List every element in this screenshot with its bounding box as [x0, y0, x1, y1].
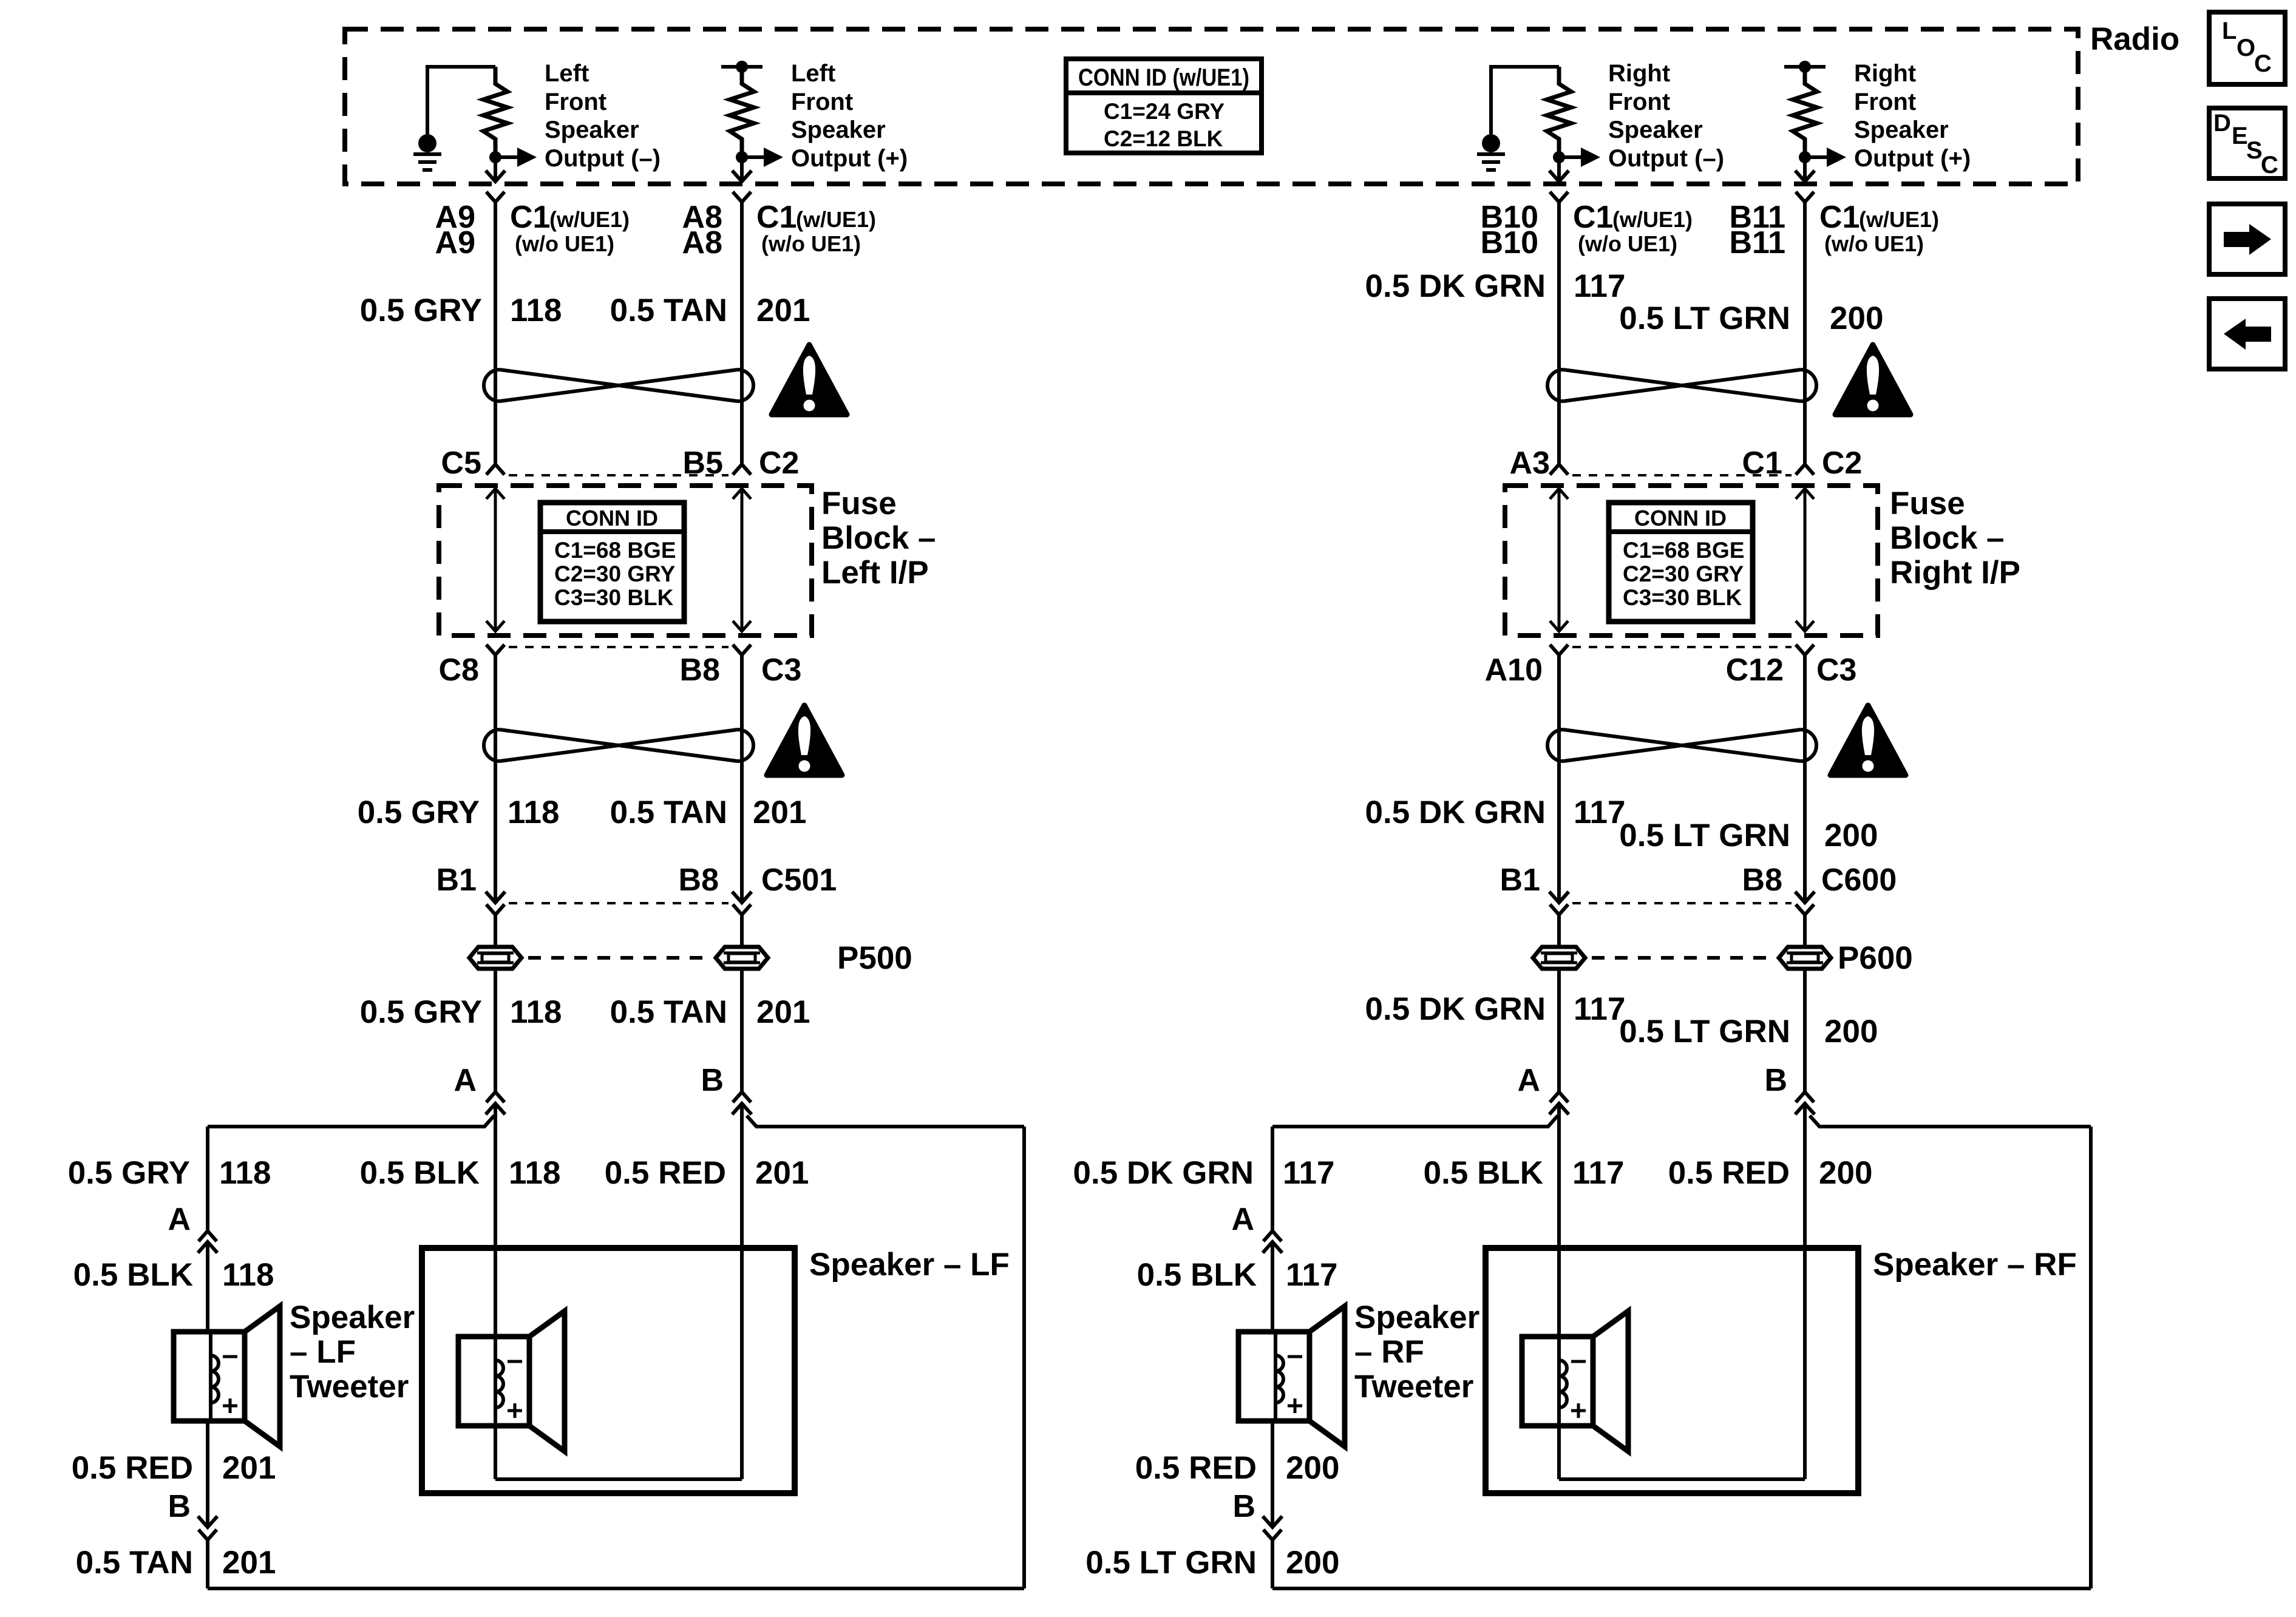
output arrow node right front (+) — [1799, 151, 1811, 163]
speaker connector male arrow pin B circuit 201 — [732, 1103, 752, 1114]
connector C501 female fork circuit 201 — [733, 904, 751, 915]
svg-text:C3: C3 — [761, 653, 801, 688]
speaker connector fork pin A circuit 117 — [1550, 1092, 1568, 1102]
P600 dashed interface line — [1592, 956, 1775, 960]
svg-text:C3: C3 — [1816, 653, 1856, 688]
svg-text:0.5 BLK: 0.5 BLK — [1424, 1155, 1543, 1191]
twisted pair symbol circuits 118/201 upper — [484, 370, 500, 401]
speaker RF tweeter horn — [1309, 1306, 1345, 1446]
connector fork into right fuse block pin A3 — [1550, 464, 1568, 475]
speaker connector male arrow pin B circuit 200 — [1795, 1103, 1815, 1114]
wire 200 fuse block to connector C600 — [1803, 655, 1807, 903]
svg-text:0.5 TAN: 0.5 TAN — [610, 293, 727, 328]
speaker connector fork pin B circuit 201 — [733, 1092, 751, 1102]
pass-through connector P500 circuit 201 — [716, 947, 768, 969]
speaker RF tweeter plus terminal — [1288, 1405, 1302, 1408]
svg-text:0.5 RED: 0.5 RED — [72, 1450, 193, 1486]
svg-text:A10: A10 — [1485, 653, 1543, 688]
speaker RF woofer internal wire — [1557, 1337, 1561, 1426]
wire tweeter to loop bottom left — [206, 1540, 209, 1588]
speaker LF woofer frame — [458, 1337, 529, 1426]
sidebar box forward arrow — [2209, 204, 2285, 274]
svg-text:B8: B8 — [680, 653, 720, 688]
wire C501 to P500 circuit 118 — [494, 915, 497, 947]
svg-text:(w/o UE1): (w/o UE1) — [1578, 231, 1677, 256]
speaker RF woofer coil — [1559, 1360, 1567, 1408]
svg-text:C1: C1 — [510, 200, 550, 235]
fuse block left I/P dashed outline — [439, 486, 812, 636]
connector fork below left fuse block pin B8/C3 — [733, 645, 751, 655]
wire outer loop bottom right half — [1272, 1587, 2091, 1590]
svg-text:201: 201 — [756, 994, 810, 1030]
svg-text:C1=68 BGE: C1=68 BGE — [1623, 538, 1745, 563]
svg-text:118: 118 — [510, 293, 562, 328]
svg-text:P600: P600 — [1838, 940, 1913, 976]
svg-text:(w/UE1): (w/UE1) — [796, 207, 876, 232]
speaker LF tweeter minus terminal — [223, 1355, 237, 1358]
svg-text:B11: B11 — [1729, 225, 1785, 260]
resistor R1 Left Front Speaker Output (-) driver — [483, 67, 508, 152]
svg-text:200: 200 — [1824, 1014, 1878, 1049]
svg-text:Output (+): Output (+) — [791, 145, 908, 172]
svg-text:0.5 RED: 0.5 RED — [605, 1155, 726, 1191]
svg-text:Block –: Block – — [1890, 520, 2005, 556]
wire 118 fuse block to connector C501 — [494, 655, 497, 903]
connector fork below right fuse block pin A10 — [1550, 645, 1568, 655]
svg-text:A9: A9 — [435, 225, 475, 260]
speaker LF woofer internal wire — [494, 1337, 497, 1426]
fuse block left internal circuit 118 double arrow — [494, 489, 497, 631]
speaker LF tweeter internal wire — [209, 1332, 212, 1421]
connector interface dashed line right fuse bottom — [1572, 646, 1792, 648]
svg-text:118: 118 — [509, 1155, 561, 1191]
svg-text:0.5 TAN: 0.5 TAN — [610, 994, 727, 1030]
svg-text:B10: B10 — [1481, 225, 1538, 260]
svg-text:Speaker: Speaker — [290, 1300, 415, 1335]
pass-through connector P500 circuit 118 — [469, 947, 521, 969]
wire C501 to P500 circuit 201 — [740, 915, 744, 947]
P500 dashed interface line — [528, 956, 712, 960]
speaker connector male arrow pin A circuit 118 — [486, 1103, 505, 1114]
svg-text:200: 200 — [1830, 300, 1883, 336]
wire P600 to speaker pin A circuit 117 — [1557, 969, 1561, 1092]
svg-text:(w/UE1): (w/UE1) — [1859, 207, 1939, 232]
svg-text:201: 201 — [222, 1545, 276, 1581]
svg-text:C1: C1 — [1819, 200, 1860, 235]
svg-text:Right: Right — [1608, 60, 1670, 87]
warning note triangle lower right — [1830, 705, 1906, 775]
svg-text:200: 200 — [1824, 818, 1878, 853]
svg-text:C2: C2 — [759, 446, 799, 481]
svg-text:200: 200 — [1286, 1545, 1339, 1581]
svg-text:118: 118 — [222, 1257, 274, 1293]
svg-text:C3=30 BLK: C3=30 BLK — [554, 585, 674, 610]
wire into right tweeter — [1271, 1242, 1274, 1332]
connector C600 female fork circuit 117 — [1550, 904, 1568, 915]
sidebar box DESC — [2209, 108, 2285, 178]
svg-text:Radio: Radio — [2090, 21, 2179, 57]
warning note triangle lower left — [767, 705, 842, 775]
twisted pair symbol circuits 117/200 lower — [1547, 730, 1563, 761]
svg-text:Front: Front — [791, 89, 853, 115]
ground G1 (left front speaker output minus reference) — [418, 134, 436, 152]
speaker RF woofer plus terminal — [1571, 1409, 1586, 1412]
svg-text:C: C — [2261, 152, 2278, 178]
wire tweeter branch vertical upper left — [206, 1127, 209, 1231]
svg-text:0.5 BLK: 0.5 BLK — [360, 1155, 480, 1191]
wire bar feeding resistor R2 — [721, 65, 763, 69]
fuse block right internal circuit 200 double arrow — [1804, 489, 1807, 631]
svg-text:C1=24 GRY: C1=24 GRY — [1104, 99, 1224, 124]
svg-text:B1: B1 — [436, 863, 477, 898]
svg-text:B: B — [701, 1063, 724, 1098]
svg-text:0.5 GRY: 0.5 GRY — [360, 994, 482, 1030]
radio connector female fork pin A9 — [486, 192, 504, 202]
svg-text:0.5 GRY: 0.5 GRY — [360, 293, 482, 328]
svg-text:(w/o UE1): (w/o UE1) — [1824, 231, 1924, 256]
svg-text:B: B — [1764, 1063, 1787, 1098]
wire P600 to speaker pin B circuit 200 — [1803, 969, 1807, 1092]
svg-text:A3: A3 — [1510, 446, 1550, 481]
speaker RF tweeter coil — [1275, 1355, 1283, 1403]
svg-text:201: 201 — [222, 1450, 276, 1486]
fuse block right internal circuit 117 double arrow — [1558, 489, 1561, 631]
connector interface dashed line left fuse bottom — [509, 646, 729, 648]
svg-text:Left: Left — [791, 60, 835, 87]
svg-text:0.5 GRY: 0.5 GRY — [68, 1155, 190, 1191]
radio connector female fork pin B11 — [1796, 192, 1814, 202]
wire into LF box circuit 201 — [740, 1103, 744, 1479]
svg-text:200: 200 — [1819, 1155, 1872, 1191]
svg-text:A: A — [453, 1063, 477, 1098]
wire speaker B to outer loop left — [747, 1116, 1024, 1127]
wire from ground G2 to resistor R3 — [1491, 67, 1559, 134]
right fuse block CONN ID table — [1609, 503, 1753, 622]
svg-text:Speaker – LF: Speaker – LF — [809, 1247, 1010, 1283]
wire tweeter branch top horizontal left — [208, 1116, 494, 1127]
svg-text:CONN ID: CONN ID — [1634, 506, 1727, 531]
wire P500 to speaker pin A circuit 118 — [494, 969, 497, 1092]
wire speaker B to outer loop right — [1810, 1116, 2091, 1127]
junction dot at resistor R4 top — [1799, 61, 1811, 73]
svg-text:E: E — [2232, 123, 2248, 149]
connector fork below left fuse block pin C8 — [486, 645, 504, 655]
connector interface dashed line left fuse top — [509, 474, 729, 476]
wire RF woofer return horizontal — [1559, 1477, 1805, 1481]
svg-text:201: 201 — [753, 795, 806, 830]
wire into RF box circuit 200 — [1803, 1103, 1807, 1479]
svg-text:(w/UE1): (w/UE1) — [1612, 207, 1693, 232]
speaker RF tweeter internal wire — [1274, 1332, 1277, 1421]
connector C501 dashed interface line — [509, 902, 729, 904]
wire C600 to P600 circuit 200 — [1803, 915, 1807, 947]
fuse block left internal circuit 201 double arrow — [741, 489, 744, 631]
svg-text:B1: B1 — [1500, 863, 1540, 898]
svg-text:0.5 GRY: 0.5 GRY — [358, 795, 480, 830]
connector C600 female fork circuit 200 — [1796, 904, 1814, 915]
tweeter connector male arrow pin B circuit 200 — [1263, 1516, 1282, 1527]
junction dot at resistor R2 top — [736, 61, 748, 73]
svg-text:Speaker: Speaker — [791, 117, 886, 143]
tweeter connector male arrow pin B circuit 201 — [198, 1516, 217, 1527]
svg-text:C600: C600 — [1821, 863, 1897, 898]
svg-text:Front: Front — [1854, 89, 1916, 115]
connector fork into left fuse block pin B5/C2 — [733, 464, 751, 475]
svg-text:117: 117 — [1574, 991, 1626, 1027]
svg-text:Right I/P: Right I/P — [1890, 555, 2020, 591]
wire tweeter branch vertical upper right — [1271, 1127, 1274, 1231]
output arrow node left front (+) — [736, 151, 748, 163]
output arrow node right front (-) — [1553, 151, 1565, 163]
speaker connector fork pin B circuit 200 — [1796, 1092, 1814, 1102]
svg-text:Speaker: Speaker — [1354, 1300, 1479, 1335]
connector fork below right fuse block pin C12/C3 — [1796, 645, 1814, 655]
svg-text:117: 117 — [1574, 268, 1626, 304]
speaker connector fork pin A circuit 118 — [486, 1092, 504, 1102]
connector C600 male arrow circuit 117 — [1549, 892, 1569, 903]
svg-text:– RF: – RF — [1354, 1334, 1424, 1370]
svg-text:A: A — [1517, 1063, 1540, 1098]
tweeter connector female fork pin B circuit 201 — [199, 1530, 217, 1540]
svg-text:0.5 TAN: 0.5 TAN — [610, 795, 727, 830]
wire below right tweeter — [1271, 1421, 1274, 1527]
wire outer loop bottom left half — [208, 1587, 1024, 1590]
tweeter connector male arrow pin A circuit 117 — [1263, 1242, 1282, 1253]
wire resistor R3 to radio connector pin B10 — [1557, 163, 1561, 181]
svg-text:118: 118 — [510, 994, 562, 1030]
speaker LF tweeter frame — [174, 1332, 245, 1421]
svg-text:0.5 BLK: 0.5 BLK — [1137, 1257, 1257, 1293]
ground G2 (right front speaker output minus reference) — [1482, 134, 1500, 152]
wire 201 radio to fuse block — [740, 202, 744, 464]
warning note triangle upper right — [1835, 345, 1911, 415]
twisted pair symbol circuits 118/201 lower — [484, 730, 500, 761]
connector C501 male arrow circuit 118 — [486, 892, 505, 903]
svg-text:0.5 BLK: 0.5 BLK — [73, 1257, 193, 1293]
svg-text:0.5 LT GRN: 0.5 LT GRN — [1619, 818, 1790, 853]
svg-text:0.5 RED: 0.5 RED — [1135, 1450, 1257, 1486]
svg-text:C2=12 BLK: C2=12 BLK — [1104, 126, 1223, 151]
pass-through connector P600 circuit 117 — [1533, 947, 1585, 969]
svg-text:Speaker – RF: Speaker – RF — [1873, 1247, 2077, 1283]
svg-text:C2: C2 — [1822, 446, 1862, 481]
svg-text:Output (+): Output (+) — [1854, 145, 1971, 172]
svg-text:B: B — [168, 1489, 191, 1524]
sidebar box LOC — [2209, 12, 2285, 84]
wire RF woofer to return circuit — [1557, 1425, 1561, 1479]
output arrow node left front (-) — [489, 151, 501, 163]
twisted pair symbol circuits 117/200 upper — [1547, 370, 1563, 401]
speaker connector male arrow pin A circuit 117 — [1549, 1103, 1569, 1114]
svg-text:B5: B5 — [683, 446, 723, 481]
connector fork into right fuse block pin C1/C2 — [1796, 464, 1814, 475]
tweeter connector female fork pin B circuit 200 — [1263, 1530, 1282, 1540]
svg-text:Front: Front — [545, 89, 606, 115]
connector C600 male arrow circuit 200 — [1795, 892, 1815, 903]
svg-text:CONN ID: CONN ID — [566, 506, 658, 531]
speaker LF woofer coil — [495, 1360, 503, 1408]
radio connector CONN ID table box — [1066, 59, 1262, 153]
wire tweeter branch top horizontal right — [1272, 1116, 1558, 1127]
speaker RF woofer minus terminal — [1571, 1360, 1586, 1363]
speaker RF tweeter minus terminal — [1288, 1355, 1302, 1358]
svg-text:Tweeter: Tweeter — [290, 1369, 409, 1405]
svg-text:CONN ID (w/UE1): CONN ID (w/UE1) — [1078, 64, 1249, 91]
wire into left tweeter — [206, 1242, 209, 1332]
svg-text:117: 117 — [1574, 795, 1626, 830]
svg-text:C12: C12 — [1726, 653, 1784, 688]
radio connector female fork pin B10 — [1550, 192, 1568, 202]
tweeter connector fork pin A circuit 117 — [1263, 1231, 1282, 1241]
connector interface dashed line right fuse top — [1572, 474, 1792, 476]
svg-text:201: 201 — [756, 293, 810, 328]
wire LF woofer return horizontal — [495, 1477, 742, 1481]
svg-text:118: 118 — [219, 1155, 271, 1191]
svg-text:D: D — [2213, 110, 2231, 137]
svg-text:C2=30 GRY: C2=30 GRY — [554, 561, 675, 586]
resistor R2 Left Front Speaker Output (+) driver — [730, 67, 754, 152]
fuse block right I/P dashed outline — [1505, 486, 1878, 636]
wire 117 fuse block to connector C600 — [1557, 655, 1561, 903]
svg-text:117: 117 — [1572, 1155, 1625, 1191]
wire from ground G1 to resistor R1 — [427, 67, 495, 134]
radio connector male arrow pin A8 — [732, 171, 752, 181]
wire 118 radio to fuse block — [494, 202, 497, 464]
svg-text:117: 117 — [1286, 1257, 1338, 1293]
warning note triangle upper left — [772, 345, 847, 415]
radio connector male arrow pin B11 — [1795, 171, 1815, 181]
svg-text:C1=68 BGE: C1=68 BGE — [554, 538, 676, 563]
svg-text:(w/UE1): (w/UE1) — [549, 207, 630, 232]
svg-text:Output (–): Output (–) — [545, 145, 661, 172]
wire 200 radio to fuse block — [1803, 202, 1807, 464]
wire 201 fuse block to connector C501 — [740, 655, 744, 903]
svg-text:Left: Left — [545, 60, 589, 87]
connector fork into left fuse block pin C5 — [486, 464, 504, 475]
svg-text:C3=30 BLK: C3=30 BLK — [1623, 585, 1742, 610]
wire resistor R1 to radio connector pin A9 — [494, 163, 497, 181]
speaker LF woofer plus terminal — [508, 1409, 522, 1412]
speaker RF woofer horn — [1593, 1311, 1628, 1451]
svg-text:S: S — [2246, 137, 2263, 164]
svg-text:(w/o UE1): (w/o UE1) — [515, 231, 614, 256]
tweeter connector male arrow pin A circuit 118 — [198, 1242, 217, 1253]
svg-text:0.5 DK GRN: 0.5 DK GRN — [1365, 795, 1546, 830]
wire into LF woofer circuit 118 — [494, 1103, 497, 1337]
svg-text:117: 117 — [1283, 1155, 1335, 1191]
svg-text:Speaker: Speaker — [1854, 117, 1949, 143]
svg-text:Right: Right — [1854, 60, 1916, 87]
svg-text:P500: P500 — [837, 940, 912, 976]
wire outer loop right vertical left half — [1022, 1127, 1026, 1588]
radio connector female fork pin A8 — [733, 192, 751, 202]
tweeter connector fork pin A circuit 118 — [199, 1231, 217, 1241]
wire LF woofer to return circuit — [494, 1425, 497, 1479]
svg-text:C501: C501 — [761, 863, 837, 898]
wire below left tweeter — [206, 1421, 209, 1527]
resistor R4 Right Front Speaker Output (+) driver — [1793, 67, 1817, 152]
svg-text:Fuse: Fuse — [1890, 486, 1965, 521]
wire outer loop right vertical right half — [2089, 1127, 2093, 1588]
speaker LF woofer horn — [529, 1311, 565, 1451]
svg-text:(w/o UE1): (w/o UE1) — [761, 231, 861, 256]
speaker LF tweeter coil — [211, 1355, 219, 1403]
svg-text:118: 118 — [508, 795, 560, 830]
connector C600 dashed interface line — [1572, 902, 1792, 904]
svg-text:0.5 RED: 0.5 RED — [1668, 1155, 1790, 1191]
svg-text:– LF: – LF — [290, 1334, 356, 1370]
svg-text:C8: C8 — [439, 653, 479, 688]
svg-text:0.5 DK GRN: 0.5 DK GRN — [1365, 991, 1546, 1027]
wire bar feeding resistor R4 — [1784, 65, 1826, 69]
svg-text:201: 201 — [755, 1155, 809, 1191]
svg-text:A: A — [168, 1202, 191, 1237]
svg-text:C5: C5 — [441, 446, 481, 481]
wire 117 radio to fuse block — [1557, 202, 1561, 464]
wire P500 to speaker pin B circuit 201 — [740, 969, 744, 1092]
svg-text:Tweeter: Tweeter — [1354, 1369, 1473, 1405]
svg-text:Speaker: Speaker — [1608, 117, 1703, 143]
radio connector male arrow pin B10 — [1549, 171, 1569, 181]
wire C600 to P600 circuit 117 — [1557, 915, 1561, 947]
svg-text:0.5 LT GRN: 0.5 LT GRN — [1619, 300, 1790, 336]
speaker LF enclosure box — [422, 1248, 795, 1493]
svg-text:B8: B8 — [679, 863, 719, 898]
svg-text:0.5 LT GRN: 0.5 LT GRN — [1085, 1545, 1257, 1581]
svg-text:C2=30 GRY: C2=30 GRY — [1623, 561, 1744, 586]
speaker LF tweeter horn — [245, 1306, 280, 1446]
wire resistor R2 to radio connector pin A8 — [740, 163, 744, 181]
svg-text:0.5 LT GRN: 0.5 LT GRN — [1619, 1014, 1790, 1049]
wire tweeter to loop bottom right — [1271, 1540, 1274, 1588]
speaker RF enclosure box — [1486, 1248, 1858, 1493]
svg-text:Speaker: Speaker — [545, 117, 639, 143]
pass-through connector P600 circuit 200 — [1779, 947, 1831, 969]
wire resistor R4 to radio connector pin B11 — [1803, 163, 1807, 181]
svg-text:200: 200 — [1286, 1450, 1339, 1486]
speaker RF tweeter frame — [1238, 1332, 1309, 1421]
svg-text:Fuse: Fuse — [821, 486, 897, 521]
svg-text:C1: C1 — [756, 200, 796, 235]
speaker RF woofer frame — [1522, 1337, 1593, 1426]
svg-text:0.5 DK GRN: 0.5 DK GRN — [1365, 268, 1546, 304]
sidebar box back arrow — [2209, 299, 2285, 369]
svg-text:Output (–): Output (–) — [1608, 145, 1724, 172]
svg-text:A: A — [1231, 1202, 1254, 1237]
resistor R3 Right Front Speaker Output (-) driver — [1547, 67, 1571, 152]
radio connector male arrow pin A9 — [486, 171, 505, 181]
speaker LF tweeter plus terminal — [223, 1405, 237, 1408]
svg-text:C1: C1 — [1573, 200, 1613, 235]
connector C501 female fork circuit 118 — [486, 904, 504, 915]
radio dashed outline box — [345, 29, 2078, 184]
connector C501 male arrow circuit 201 — [732, 892, 752, 903]
left fuse block CONN ID table — [540, 503, 684, 622]
wire into RF woofer circuit 117 — [1557, 1103, 1561, 1337]
svg-text:Front: Front — [1608, 89, 1670, 115]
svg-text:C: C — [2254, 50, 2272, 77]
speaker LF woofer minus terminal — [508, 1360, 522, 1363]
svg-text:Left I/P: Left I/P — [821, 555, 929, 591]
svg-text:Block –: Block – — [821, 520, 936, 556]
svg-text:B8: B8 — [1742, 863, 1782, 898]
svg-text:0.5 TAN: 0.5 TAN — [76, 1545, 193, 1581]
svg-text:A8: A8 — [682, 225, 722, 260]
svg-text:L: L — [2222, 18, 2237, 44]
svg-text:B: B — [1232, 1489, 1255, 1524]
svg-text:O: O — [2237, 35, 2255, 61]
svg-text:0.5 DK GRN: 0.5 DK GRN — [1073, 1155, 1254, 1191]
